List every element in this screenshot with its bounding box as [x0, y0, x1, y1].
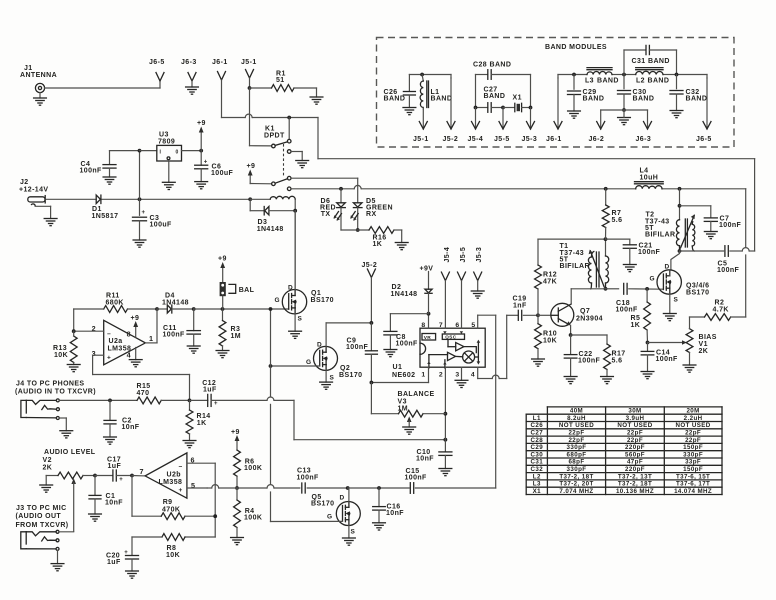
svg-text:2.2uH: 2.2uH: [684, 415, 703, 422]
svg-text:BAND: BAND: [490, 62, 512, 69]
svg-text:J6-1: J6-1: [212, 59, 228, 66]
node R5 top: [645, 287, 649, 291]
svg-text:U1: U1: [393, 364, 403, 371]
svg-text:T2: T2: [646, 212, 655, 219]
ground: [133, 239, 146, 241]
ground: [532, 358, 545, 360]
wire T2 out: [680, 250, 724, 252]
svg-text:+: +: [214, 401, 218, 407]
wire C27 right: [530, 75, 532, 108]
wire hop over gate line2: [267, 485, 274, 488]
svg-text:C29: C29: [531, 444, 544, 451]
svg-text:2: 2: [439, 372, 443, 379]
wire C4 to U3: [110, 150, 140, 152]
relay K1 bottom pole: [272, 182, 276, 186]
ground: [343, 537, 356, 539]
wire audio to U1 pin2: [293, 400, 295, 439]
node R5/C14/V1: [646, 341, 650, 345]
svg-text:5: 5: [191, 481, 195, 490]
svg-text:−: −: [179, 464, 183, 471]
IC U1 NE602 body: [420, 328, 485, 367]
wire U2a pin3: [93, 354, 104, 356]
wire to C15: [348, 487, 379, 489]
svg-text:8: 8: [421, 322, 425, 329]
wire C27 left: [475, 75, 477, 108]
svg-text:10uH: 10uH: [640, 175, 659, 182]
svg-text:D3: D3: [258, 219, 268, 226]
node U3 in: [138, 149, 142, 153]
svg-text:330pF: 330pF: [567, 466, 587, 473]
relay K1 top pole: [288, 118, 290, 140]
svg-text:2K: 2K: [699, 348, 709, 355]
svg-text:22pF: 22pF: [568, 430, 584, 437]
svg-text:C32: C32: [531, 466, 544, 473]
ground: [187, 345, 200, 347]
wire J5-1 to K1 contact: [249, 88, 251, 146]
svg-text:BS170: BS170: [311, 297, 334, 304]
svg-text:33pF: 33pF: [685, 459, 701, 466]
node pin2/V3: [444, 412, 448, 416]
svg-text:T1: T1: [560, 243, 569, 250]
LED D5 light arrows: [351, 212, 355, 218]
wire U1 pin4 route: [477, 367, 479, 378]
svg-text:2N3904: 2N3904: [576, 316, 603, 323]
pin J5-5 module: [502, 108, 504, 130]
svg-text:OSC: OSC: [445, 335, 456, 340]
pin J5-1 module: [422, 108, 424, 110]
wire U1 pin8: [428, 314, 430, 329]
svg-text:C26: C26: [531, 422, 544, 429]
svg-text:J5-4: J5-4: [468, 136, 484, 143]
svg-text:1: 1: [421, 372, 425, 379]
svg-text:10nF: 10nF: [105, 500, 123, 507]
svg-text:C31: C31: [531, 459, 544, 466]
svg-text:V3: V3: [398, 399, 407, 406]
svg-text:J5-2: J5-2: [362, 262, 378, 269]
svg-text:J6-3: J6-3: [636, 136, 652, 143]
svg-text:R14: R14: [197, 413, 211, 420]
node L1 top: [420, 73, 424, 77]
wire C15 to U1 pin5 riser: [415, 487, 495, 489]
op-amp U2b: [145, 453, 187, 498]
svg-text:AUDIO LEVEL: AUDIO LEVEL: [44, 449, 96, 456]
svg-text:S: S: [351, 529, 356, 536]
wire U2b pin6 feedback: [187, 462, 215, 464]
svg-text:C19: C19: [513, 296, 527, 303]
svg-text:47pF: 47pF: [627, 459, 643, 466]
ground: [320, 381, 333, 383]
node C29 top: [572, 73, 576, 77]
svg-text:BALANCE: BALANCE: [398, 391, 435, 398]
node Q1 drain feed: [293, 209, 297, 213]
svg-text:BAND: BAND: [648, 78, 670, 85]
pot V2 wiper: [71, 478, 76, 484]
svg-text:30M: 30M: [628, 408, 641, 415]
svg-text:T37-6, 15T: T37-6, 15T: [676, 473, 710, 480]
svg-text:X1: X1: [533, 488, 542, 495]
svg-text:10nF: 10nF: [416, 456, 434, 463]
svg-text:J6-5: J6-5: [149, 59, 165, 66]
svg-text:14.074 MHZ: 14.074 MHZ: [674, 488, 712, 495]
svg-text:68pF: 68pF: [568, 459, 584, 466]
ground: [89, 513, 102, 515]
svg-text:100K: 100K: [244, 465, 262, 472]
wire U3 out: [182, 150, 202, 152]
svg-text:150pF: 150pF: [683, 444, 703, 451]
node J5-3: [529, 106, 533, 110]
node D6 anode: [339, 187, 343, 191]
node R3 top: [221, 307, 225, 311]
svg-text:330pF: 330pF: [567, 444, 587, 451]
relay K1 mechanical link: [283, 144, 285, 178]
svg-text:100K: 100K: [244, 515, 262, 522]
relay K1 bottom TX contact: [287, 187, 291, 191]
svg-text:RX: RX: [366, 211, 377, 218]
wire antenna rail right: [318, 158, 755, 160]
svg-text:20M: 20M: [686, 408, 699, 415]
svg-text:BAND: BAND: [633, 96, 655, 103]
svg-text:100nF: 100nF: [80, 168, 103, 175]
svg-text:U3: U3: [159, 132, 169, 139]
svg-text:+9: +9: [231, 429, 240, 436]
ground: [310, 96, 323, 98]
node C9 bottom / pin1: [370, 381, 374, 385]
svg-text:−: −: [107, 331, 111, 338]
ground: [129, 359, 142, 361]
svg-text:J3 TO PC MIC: J3 TO PC MIC: [16, 505, 67, 512]
svg-text:100nF: 100nF: [656, 356, 679, 363]
svg-text:8.2uH: 8.2uH: [567, 415, 586, 422]
node U2b out: [130, 474, 134, 478]
svg-text:+: +: [107, 355, 111, 362]
ground: [104, 436, 117, 438]
svg-text:J6-5: J6-5: [696, 136, 712, 143]
svg-text:100nF: 100nF: [346, 344, 369, 351]
svg-text:R17: R17: [612, 351, 626, 358]
node C10: [444, 438, 448, 442]
wire hop over D5 line: [354, 185, 361, 188]
svg-text:+9: +9: [218, 256, 227, 263]
wire C5 to antenna rail: [730, 250, 742, 252]
svg-text:100nF: 100nF: [163, 332, 186, 339]
svg-text:V2: V2: [43, 457, 52, 464]
LED D6 light arrows: [335, 212, 339, 218]
node relay coil left: [248, 197, 252, 201]
svg-text:J5-1: J5-1: [413, 136, 429, 143]
svg-text:J5-1: J5-1: [241, 59, 257, 66]
ground: [641, 371, 654, 373]
svg-text:BIFILAR: BIFILAR: [560, 263, 590, 270]
wire hop over J5-1: [245, 114, 252, 117]
wire TX gate vertical: [270, 309, 272, 366]
node C30/C31 left: [622, 73, 626, 77]
node Q2 drain/C9: [370, 321, 374, 325]
node R14/C12: [188, 399, 192, 403]
wire J1 to J6-5: [45, 87, 160, 89]
svg-text:R9: R9: [163, 499, 173, 506]
svg-text:+: +: [119, 477, 123, 483]
wire C26/L1 top: [409, 74, 451, 76]
svg-text:D2: D2: [392, 284, 402, 291]
wire TX rail: [291, 188, 354, 190]
ground: [216, 350, 229, 352]
svg-text:BS170: BS170: [311, 501, 334, 508]
wire Q2 gate: [271, 365, 320, 367]
node J5-1/R1: [248, 86, 252, 90]
svg-text:G: G: [275, 297, 280, 304]
ground: [403, 426, 416, 428]
svg-text:VR: VR: [424, 335, 432, 341]
svg-text:5.6: 5.6: [612, 358, 623, 365]
svg-text:G: G: [650, 276, 655, 283]
svg-text:Q2: Q2: [340, 365, 350, 372]
svg-text:S: S: [330, 375, 335, 382]
pin J6-5 module: [706, 75, 708, 79]
svg-text:220pF: 220pF: [625, 444, 645, 451]
svg-text:C28: C28: [531, 437, 544, 444]
svg-text:D4: D4: [165, 293, 175, 300]
svg-text:470: 470: [137, 390, 150, 397]
svg-text:J6-2: J6-2: [589, 136, 605, 143]
ground: [704, 231, 717, 233]
pin J6-3 module: [624, 109, 648, 111]
svg-text:T37-6, 17T: T37-6, 17T: [676, 481, 710, 488]
svg-text:J6-3: J6-3: [181, 59, 197, 66]
wire Q5 gate: [271, 520, 343, 522]
svg-text:100nF: 100nF: [638, 249, 661, 256]
svg-text:Q7: Q7: [580, 308, 590, 315]
node C2: [108, 399, 112, 403]
svg-text:BS170: BS170: [686, 290, 709, 297]
ground: [60, 430, 73, 432]
ground: [568, 110, 581, 112]
svg-text:10K: 10K: [543, 338, 557, 345]
ground: [195, 181, 208, 183]
svg-text:+9: +9: [197, 120, 206, 127]
ground: [231, 537, 244, 539]
ground: [34, 97, 47, 99]
svg-text:BAND: BAND: [686, 96, 708, 103]
wire R12 top: [538, 238, 606, 240]
svg-text:8: 8: [127, 330, 131, 339]
wire C18 to Q3 gate: [629, 288, 664, 290]
node C11: [192, 307, 196, 311]
wire C13 to Q5: [307, 487, 348, 489]
wire U2a out: [145, 342, 157, 344]
connector J3 jack: [21, 532, 26, 549]
wire T1 bottom: [571, 288, 605, 290]
node R12/R7/T1: [604, 237, 608, 241]
svg-text:J4 TO PC PHONES: J4 TO PC PHONES: [16, 381, 85, 388]
svg-text:1: 1: [149, 334, 153, 343]
wire hop over feedback: [212, 485, 219, 488]
svg-text:40M: 40M: [570, 408, 583, 415]
svg-text:J5-3: J5-3: [522, 136, 538, 143]
svg-text:100nF: 100nF: [616, 307, 639, 314]
wire into U3: [140, 150, 157, 152]
svg-text:K1: K1: [265, 126, 275, 133]
svg-text:4: 4: [127, 351, 131, 360]
svg-text:(AUDIO OUT: (AUDIO OUT: [16, 513, 62, 520]
ground: [296, 160, 309, 162]
wire T2 to Q3 drain: [671, 251, 680, 270]
svg-text:BAND MODULES: BAND MODULES: [545, 44, 607, 51]
svg-text:L3: L3: [585, 78, 594, 85]
svg-text:L1: L1: [533, 415, 541, 422]
wire U1 pin1: [428, 367, 430, 382]
ground: [439, 468, 452, 470]
svg-text:560pF: 560pF: [625, 451, 645, 458]
node K1 pole top: [287, 116, 291, 120]
wire U1 pin3 gnd: [461, 367, 463, 380]
svg-text:22pF: 22pF: [685, 437, 701, 444]
svg-text:NOT USED: NOT USED: [559, 422, 594, 429]
svg-text:R15: R15: [137, 383, 151, 390]
svg-text:(AUDIO IN TO TXCVR): (AUDIO IN TO TXCVR): [15, 389, 96, 396]
node R13 top: [72, 329, 76, 333]
svg-text:G: G: [306, 359, 311, 366]
svg-text:J1: J1: [24, 65, 33, 72]
svg-text:150pF: 150pF: [683, 466, 703, 473]
wire hop pin4 over pin5 riser: [492, 375, 499, 378]
ground: [403, 107, 416, 109]
svg-text:100nF: 100nF: [717, 267, 740, 274]
pin J6-2 module: [601, 109, 624, 111]
svg-text:BAND: BAND: [484, 93, 506, 100]
svg-text:I: I: [160, 150, 162, 156]
svg-text:BAND: BAND: [431, 96, 453, 103]
wire U2b pin5: [187, 487, 207, 489]
svg-text:+9V: +9V: [420, 266, 434, 273]
svg-text:100uF: 100uF: [211, 170, 234, 177]
svg-text:LM358: LM358: [159, 479, 183, 486]
svg-text:T37-2, 13T: T37-2, 13T: [618, 473, 652, 480]
ground: [623, 264, 636, 266]
svg-text:10.136 MHZ: 10.136 MHZ: [616, 488, 654, 495]
node T2 tap: [678, 204, 682, 208]
wire C30 gnd stub: [623, 110, 625, 118]
svg-text:100nF: 100nF: [578, 358, 601, 365]
node T1 bottom: [604, 287, 608, 291]
svg-text:6: 6: [455, 322, 459, 329]
wire LC filter top: [558, 74, 587, 76]
svg-text:+9: +9: [247, 163, 256, 170]
node U2a out: [155, 307, 159, 311]
svg-text:R7: R7: [612, 210, 622, 217]
wire C9 to V3: [370, 383, 372, 414]
svg-text:7: 7: [439, 322, 443, 329]
svg-text:+: +: [179, 487, 183, 494]
svg-text:+: +: [142, 210, 146, 216]
wire J4 tip to R15: [59, 399, 110, 401]
pin J5-4 module: [475, 108, 477, 130]
node Q5 drain: [346, 486, 350, 490]
svg-text:7809: 7809: [158, 139, 175, 146]
ground: [670, 110, 683, 112]
svg-text:BIFILAR: BIFILAR: [645, 232, 675, 239]
svg-text:1N5817: 1N5817: [92, 213, 119, 220]
svg-text:100uF: 100uF: [150, 222, 173, 229]
svg-text:0: 0: [176, 150, 179, 156]
svg-text:C27: C27: [531, 430, 544, 437]
svg-text:BAL: BAL: [239, 287, 255, 294]
svg-text:S: S: [298, 316, 303, 323]
ground: [395, 242, 408, 244]
svg-text:R10: R10: [543, 331, 557, 338]
svg-text:J5-5: J5-5: [460, 247, 467, 263]
svg-text:C13: C13: [297, 468, 311, 475]
wire to Q1 drain: [294, 211, 296, 290]
wire U1 pin5 route: [477, 315, 479, 328]
svg-text:4.7K: 4.7K: [713, 307, 729, 314]
svg-text:47K: 47K: [543, 279, 557, 286]
wire to U2b: [132, 475, 145, 477]
wire gate line: [194, 308, 223, 310]
wire pin5 rail: [207, 487, 211, 489]
svg-text:22pF: 22pF: [627, 437, 643, 444]
svg-text:T37-2, 18T: T37-2, 18T: [618, 481, 652, 488]
svg-text:L2: L2: [533, 473, 541, 480]
svg-text:R2: R2: [715, 300, 725, 307]
svg-text:FROM TXCVR): FROM TXCVR): [16, 522, 69, 529]
svg-text:100nF: 100nF: [297, 475, 320, 482]
node R9/pin6: [213, 514, 217, 518]
svg-text:2K: 2K: [43, 465, 53, 472]
svg-text:BAND: BAND: [384, 96, 406, 103]
svg-text:T37-2, 18T: T37-2, 18T: [559, 473, 593, 480]
wire +12 rail: [46, 198, 96, 200]
node T2 bottom: [678, 249, 682, 253]
svg-text:TX: TX: [321, 211, 331, 218]
node R6/R4: [235, 486, 239, 490]
svg-text:1K: 1K: [373, 241, 383, 248]
svg-text:1nF: 1nF: [513, 303, 527, 310]
svg-text:L4: L4: [640, 168, 649, 175]
pot V3 wiper: [407, 416, 412, 422]
svg-text:V1: V1: [699, 341, 708, 348]
svg-text:J5-5: J5-5: [494, 136, 510, 143]
relay K1 coil: [270, 196, 295, 199]
connector J4 jack: [21, 400, 26, 417]
svg-text:330pF: 330pF: [683, 451, 703, 458]
svg-text:10nF: 10nF: [122, 424, 140, 431]
svg-text:C30: C30: [531, 451, 544, 458]
svg-text:R12: R12: [543, 272, 557, 279]
node R7 top: [604, 187, 608, 191]
svg-text:ANTENNA: ANTENNA: [20, 72, 57, 79]
svg-text:J5-2: J5-2: [443, 136, 459, 143]
ground: [186, 86, 199, 88]
svg-text:L3: L3: [533, 481, 541, 488]
svg-text:220pF: 220pF: [625, 466, 645, 473]
svg-text:4: 4: [471, 372, 475, 379]
wire to U3 input: [139, 151, 141, 200]
ground: [471, 290, 484, 292]
node C3: [138, 197, 142, 201]
svg-text:100nF: 100nF: [719, 222, 742, 229]
wire bias to V1: [648, 342, 683, 344]
svg-text:NOT USED: NOT USED: [617, 422, 652, 429]
ground: [44, 218, 57, 220]
svg-text:U2b: U2b: [167, 472, 181, 479]
ground: [601, 376, 614, 378]
svg-text:680pF: 680pF: [567, 451, 587, 458]
svg-text:7: 7: [140, 467, 144, 476]
wire Q2 drain to J5-2 line: [326, 322, 371, 324]
svg-text:100nF: 100nF: [405, 475, 428, 482]
op-amp U2a: [104, 320, 146, 365]
svg-text:J5-4: J5-4: [444, 247, 451, 263]
